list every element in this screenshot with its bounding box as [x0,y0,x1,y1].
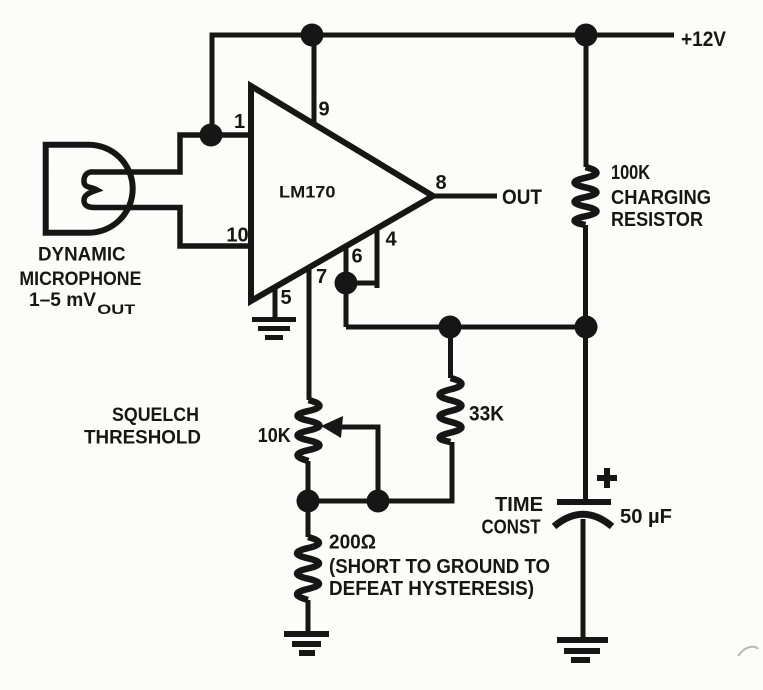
svg-text:+12V: +12V [681,27,727,51]
wire pin 4 to pin 6 [375,228,380,288]
svg-text:1–5 mV: 1–5 mV [29,289,96,311]
svg-text:10: 10 [226,225,248,247]
node junction dot pin 6 [335,272,358,295]
svg-text:1: 1 [234,111,245,133]
resistor R2 33K body [440,378,462,442]
svg-text:SQUELCH: SQUELCH [112,405,199,426]
wire hysteresis rail y327 [346,325,586,330]
svg-text:TIME: TIME [495,494,543,516]
wire pot bottom node [306,461,311,537]
svg-text:9: 9 [318,99,329,121]
svg-text:OUT: OUT [502,186,542,209]
svg-text:100K: 100K [611,162,650,184]
resistor R4 100K charging body [575,167,597,225]
ground under pin 5 [252,320,296,338]
capacitor C1 50uF plus sign [597,468,617,488]
wire 33K top lead [448,327,453,378]
node junction dot pot bottom [297,490,320,513]
svg-text:5: 5 [280,287,291,309]
svg-text:7: 7 [316,266,327,288]
svg-text:THRESHOLD: THRESHOLD [84,428,201,449]
svg-text:(SHORT TO GROUND TO: (SHORT TO GROUND TO [329,556,550,578]
svg-text:10K: 10K [258,424,291,447]
op-amp U1 LM170 triangle [251,86,433,301]
svg-text:50 µF: 50 µF [620,506,672,528]
node junction dot pin 1 [200,124,223,147]
decorative faint mark bottom right [738,647,758,656]
ground bottom left [284,634,329,653]
potentiometer R1 10K body [298,400,320,461]
node junction dot rail/pin9 [301,24,324,47]
potentiometer R1 wiper arrow [338,427,378,501]
wire capacitor to ground [581,519,586,640]
svg-text:6: 6 [351,246,362,268]
wire pin 8 OUT [433,194,497,199]
wire node to 33K bottom [308,442,452,501]
wire 200 ohm to ground [306,600,311,634]
svg-text:LM170: LM170 [279,184,336,202]
svg-text:CONST: CONST [482,517,541,539]
label TIME CONST [482,494,544,539]
wire right rail lower [583,225,588,502]
capacitor C1 curved plate [554,514,612,526]
capacitor C1 top plate [557,499,611,505]
svg-text:8: 8 [435,172,446,194]
node junction dot rail/right [575,24,598,47]
wire top rail +12V [212,35,674,135]
wire pin 6 drop [344,246,349,327]
wire right rail upper [584,35,589,167]
ground bottom right [557,640,608,660]
node junction dot right rail y327 [575,316,598,339]
wire pin 7 drop [307,268,312,400]
svg-text:MICROPHONE: MICROPHONE [19,268,141,290]
label 100K CHARGING RESISTOR [611,162,711,231]
svg-text:200Ω: 200Ω [329,531,376,554]
svg-text:4: 4 [385,229,397,251]
svg-text:CHARGING: CHARGING [611,187,711,209]
label SQUELCH THRESHOLD [84,405,201,449]
svg-text:33K: 33K [469,403,504,426]
svg-text:DEFEAT HYSTERESIS): DEFEAT HYSTERESIS) [329,578,534,600]
microphone MIC1 leads and inner curl [84,135,251,246]
node junction dot 33K top [439,316,462,339]
node junction dot wiper bottom [367,490,390,513]
svg-text:OUT: OUT [97,301,136,317]
resistor R3 200 ohm body [297,537,319,600]
wire pin 5 to ground [273,287,278,319]
wire pin 9 drop from rail [312,35,317,124]
label DYNAMIC MICROPHONE 1-5 mVout [19,244,141,318]
svg-text:RESISTOR: RESISTOR [611,209,704,231]
microphone MIC1 outer shell [46,145,133,233]
svg-text:DYNAMIC: DYNAMIC [38,244,126,266]
